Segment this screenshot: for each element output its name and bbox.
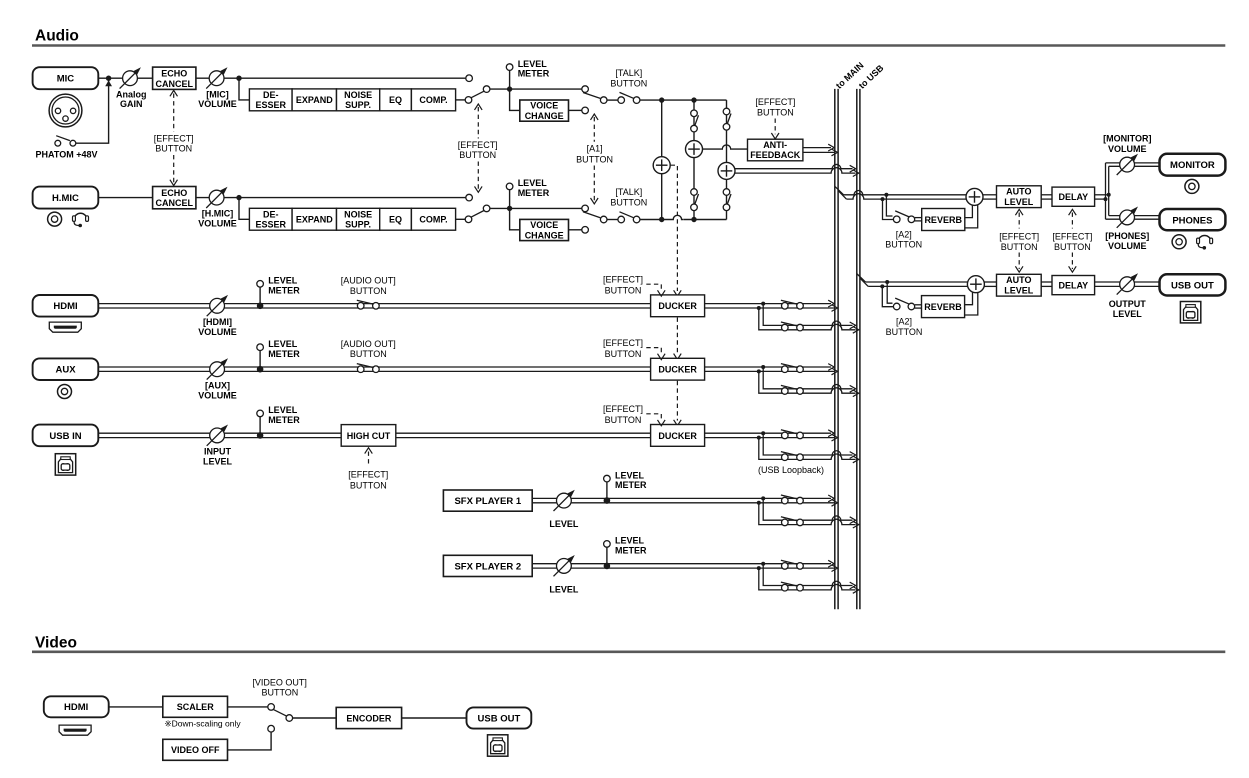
bus to MAIN line R — [837, 89, 839, 609]
arrow sfx2 into USB R — [853, 587, 859, 594]
switch TALK (open) — [618, 92, 640, 103]
contact bypass throw — [466, 75, 473, 82]
svg-text:COMP.: COMP. — [419, 95, 447, 105]
svg-text:PHONES: PHONES — [1172, 215, 1212, 226]
svg-text:DE-: DE- — [263, 90, 279, 100]
svg-text:CANCEL: CANCEL — [156, 198, 194, 208]
svg-text:VIDEO OFF: VIDEO OFF — [171, 745, 220, 755]
switch VIDEO OUT select — [268, 704, 293, 732]
level meter USB IN — [259, 417, 261, 436]
arrow hdmi into USB L — [850, 322, 856, 329]
svg-text:EXPAND: EXPAND — [296, 95, 333, 105]
svg-text:DUCKER: DUCKER — [658, 365, 697, 375]
svg-text:[EFFECT]: [EFFECT] — [603, 274, 643, 284]
level meter AUX — [259, 350, 261, 369]
wire between switches — [607, 99, 618, 101]
wire HDMI to scaler — [109, 706, 163, 708]
switch A1 select (main vs voice change) — [582, 205, 607, 223]
svg-text:BUTTON: BUTTON — [610, 78, 647, 88]
wire usbout reverb drop inner — [887, 282, 892, 303]
wire h.mic mix line hop over ducker dash — [672, 217, 684, 222]
svg-text:LEVEL: LEVEL — [518, 59, 548, 69]
input box MIC — [33, 67, 99, 89]
contact bypass throw — [466, 194, 473, 201]
wire hdmi upper pair to MAIN — [705, 303, 831, 305]
contact voice change throw — [582, 107, 589, 114]
level meter sfx1 — [606, 482, 608, 501]
dashed wire ducker sidechain duct1-duct2 — [676, 318, 678, 355]
level meter HDMI — [259, 287, 261, 306]
node level meter tap — [507, 86, 512, 91]
node split R — [1104, 197, 1108, 201]
box ENCODER — [336, 707, 401, 728]
knob Analog GAIN — [120, 67, 141, 88]
svg-text:DUCKER: DUCKER — [658, 431, 697, 441]
svg-text:VOICE: VOICE — [530, 101, 558, 111]
box VOICE CHANGE — [520, 100, 569, 121]
wire gain knob to echo cancel — [138, 77, 153, 79]
svg-text:METER: METER — [268, 349, 300, 359]
node hdmi branch L — [761, 302, 765, 306]
svg-text:METER: METER — [518, 188, 550, 198]
svg-text:PHATOM +48V: PHATOM +48V — [36, 149, 98, 159]
svg-text:[TALK]: [TALK] — [615, 187, 642, 197]
arrow sfx2 into USB L — [850, 582, 856, 589]
contact voice change throw — [582, 227, 589, 234]
dashed arrow anti-feedback effect — [774, 119, 776, 135]
dashed arrow echo cancel effect (both ends) — [173, 94, 175, 132]
svg-text:LEVEL: LEVEL — [615, 536, 645, 546]
svg-text:HDMI: HDMI — [64, 702, 88, 713]
svg-text:LEVEL: LEVEL — [268, 276, 298, 286]
svg-text:LEVEL: LEVEL — [1004, 197, 1034, 207]
svg-text:H.MIC: H.MIC — [52, 193, 79, 204]
box AUTO LEVEL 2 — [997, 274, 1042, 296]
dashed wire ducker sidechain from sum — [671, 165, 678, 291]
knob SFX 1 LEVEL — [554, 490, 575, 511]
svg-text:BUTTON: BUTTON — [261, 688, 298, 698]
node V2 bottom junction — [691, 217, 696, 222]
wire sum to anti-feedback (hop over V3) — [703, 145, 748, 149]
node usbout reverb tap L — [885, 280, 889, 284]
wire encoder to usb out — [402, 717, 467, 719]
svg-text:BUTTON: BUTTON — [350, 286, 387, 296]
svg-text:AUX: AUX — [55, 365, 76, 376]
wire reverb1 return outer — [965, 205, 978, 228]
knob INPUT LEVEL — [207, 425, 228, 446]
svg-text:BUTTON: BUTTON — [605, 285, 642, 295]
wire monitor/phones split inner — [1108, 166, 1110, 215]
dashed arrow effect into ducker 3 — [646, 414, 661, 421]
svg-text:VOLUME: VOLUME — [198, 99, 237, 109]
svg-text:CHANGE: CHANGE — [525, 230, 564, 240]
node split L — [1107, 193, 1111, 197]
svg-text:LEVEL: LEVEL — [518, 178, 548, 188]
arrow aux into MAIN R — [832, 368, 838, 375]
svg-text:COMP.: COMP. — [419, 215, 447, 225]
USB-B icon below USB OUT — [1180, 302, 1200, 323]
svg-text:CHANGE: CHANGE — [525, 111, 564, 121]
box DUCKER 1 — [651, 295, 705, 317]
wire tap from MAIN bus R (diagonal) — [838, 191, 846, 200]
jack icon below MONITOR — [1185, 179, 1199, 193]
box DELAY 1 — [1052, 187, 1095, 206]
arrow usbin into USB R — [853, 456, 859, 463]
wire voice change tap — [510, 89, 520, 110]
headset icon below PHONES — [1197, 236, 1213, 250]
svg-text:LEVEL: LEVEL — [615, 470, 645, 480]
wire hdmi lower pair to USB (hop over MAIN) — [782, 321, 853, 325]
wire video off to switch — [228, 732, 272, 750]
wire hdmi lower branch drop R — [759, 308, 782, 330]
switch V2 lower — [691, 189, 699, 211]
box DELAY 2 — [1052, 276, 1095, 295]
wire voice change output — [569, 109, 582, 111]
svg-text:BUTTON: BUTTON — [350, 481, 387, 491]
wire delay out pair — [1095, 194, 1109, 196]
wire switch to encoder — [293, 717, 337, 719]
svg-text:SCALER: SCALER — [177, 702, 215, 712]
node sfx1 branch R — [757, 501, 761, 505]
svg-text:SUPP.: SUPP. — [345, 219, 371, 229]
svg-text:ECHO: ECHO — [161, 188, 187, 198]
box COMP. — [411, 89, 455, 111]
svg-text:DE-: DE- — [263, 210, 279, 220]
sum main-mix — [653, 157, 670, 174]
box EXPAND — [292, 89, 336, 111]
wire reverb2 return inner — [965, 292, 973, 305]
svg-text:GAIN: GAIN — [120, 99, 143, 109]
rule under Video — [32, 650, 1225, 653]
switch usbout A2 reverb — [893, 298, 914, 310]
box EQ — [380, 89, 412, 111]
svg-text:LEVEL: LEVEL — [549, 585, 579, 595]
arrow usbin into MAIN R — [832, 434, 838, 441]
svg-text:[EFFECT]: [EFFECT] — [348, 470, 388, 480]
svg-text:METER: METER — [268, 285, 300, 295]
wire aux lower branch drop R — [759, 371, 782, 393]
level meter sfx2 — [606, 547, 608, 566]
arrow sfx1 into MAIN L — [828, 495, 834, 502]
HDMI connector icon (video) — [59, 725, 91, 735]
svg-text:BUTTON: BUTTON — [886, 327, 923, 337]
switch sfx1 to MAIN — [781, 495, 803, 504]
svg-text:INPUT: INPUT — [204, 447, 232, 457]
switch A1 select (main vs voice change) — [582, 86, 607, 104]
arrow sfx2 into MAIN L — [828, 560, 834, 567]
knob [AUX] VOLUME — [207, 358, 228, 379]
svg-text:OUTPUT: OUTPUT — [1109, 299, 1147, 309]
wire anti-feedback out L to MAIN — [803, 147, 831, 149]
arrow hdmi into MAIN R — [832, 305, 838, 312]
svg-text:CANCEL: CANCEL — [156, 79, 194, 89]
level meter circle — [509, 190, 511, 209]
svg-text:ESSER: ESSER — [256, 100, 287, 110]
node level meter tap — [507, 206, 512, 211]
svg-text:EXPAND: EXPAND — [296, 215, 333, 225]
box SFX PLAYER 2 — [443, 555, 532, 576]
node usbout reverb tap R — [880, 284, 884, 288]
node monitor reverb tap L — [884, 193, 888, 197]
svg-text:SFX PLAYER 1: SFX PLAYER 1 — [454, 496, 521, 507]
XLR connector icon — [49, 94, 82, 127]
sum anti-feedback — [686, 141, 703, 158]
bus to MAIN line L — [834, 89, 836, 609]
wire switch to reverb pair — [915, 304, 922, 306]
wire usbout reverb drop outer — [882, 286, 893, 306]
input box HDMI (video) — [44, 696, 109, 717]
box ECHO CANCEL (mic) — [153, 67, 196, 89]
switch sfx1 to USB — [781, 517, 803, 526]
svg-text:FEEDBACK: FEEDBACK — [750, 150, 801, 160]
wire switch common to voice-change switch — [490, 88, 582, 90]
svg-text:METER: METER — [615, 546, 647, 556]
box MONITOR — [1160, 154, 1226, 176]
svg-text:[A2]: [A2] — [896, 229, 912, 239]
node hdmi branch R — [757, 306, 761, 310]
svg-text:[TALK]: [TALK] — [615, 68, 642, 78]
wire AUX pair to ducker — [98, 366, 650, 368]
svg-text:MONITOR: MONITOR — [1170, 160, 1215, 171]
wire drop into effects chain — [239, 198, 249, 220]
wire monitor pair — [1106, 162, 1160, 164]
svg-text:REVERB: REVERB — [924, 302, 962, 312]
input box HDMI — [33, 295, 99, 317]
svg-text:USB IN: USB IN — [49, 431, 81, 442]
wire to mix bus verticals — [640, 219, 727, 221]
knob OUTPUT LEVEL — [1117, 273, 1138, 294]
wire echo cancel to volume knob — [196, 197, 239, 199]
level meter circle — [509, 70, 511, 89]
switch sfx2 to MAIN — [781, 560, 803, 569]
box DUCKER 3 — [651, 425, 705, 447]
svg-text:ENCODER: ENCODER — [346, 713, 392, 723]
svg-text:ECHO: ECHO — [161, 69, 187, 79]
dashed arrow effect (auto level/delay col 1019.2) — [1018, 213, 1020, 229]
box USB OUT (video) — [467, 707, 532, 728]
node aux branch L — [761, 365, 765, 369]
svg-text:[AUDIO OUT]: [AUDIO OUT] — [341, 276, 396, 286]
arrow usbin into MAIN L — [828, 430, 834, 437]
wire phones pair — [1109, 215, 1160, 217]
wire sfx1 lower pair to USB — [782, 516, 853, 520]
svg-text:[MIC]: [MIC] — [206, 89, 229, 99]
wire USB IN pair to ducker — [98, 432, 650, 434]
svg-text:DELAY: DELAY — [1058, 280, 1088, 290]
knob MONITOR VOLUME — [1117, 154, 1138, 175]
box REVERB 2 — [922, 296, 965, 318]
svg-text:BUTTON: BUTTON — [610, 197, 647, 207]
arrow aux into USB R — [853, 390, 859, 397]
wire sfx2 lower drop R — [759, 568, 782, 590]
svg-text:BUTTON: BUTTON — [757, 107, 794, 117]
box VIDEO OFF — [163, 739, 228, 760]
svg-text:BUTTON: BUTTON — [350, 349, 387, 359]
knob MIC VOLUME — [206, 67, 227, 88]
wire echo cancel to volume knob — [196, 77, 239, 79]
arrow sfx2 into MAIN R — [832, 565, 838, 572]
wire switch to reverb pair — [915, 217, 922, 219]
bus to USB line R — [859, 89, 861, 609]
wire anti-feedback vertical — [693, 100, 695, 219]
switch hdmi to USB — [781, 322, 803, 331]
node sfx2 branch L — [761, 562, 765, 566]
svg-text:VOLUME: VOLUME — [1108, 241, 1147, 251]
wire main-mix vertical (MIC+H.MIC sum) — [661, 100, 663, 219]
svg-text:VOLUME: VOLUME — [1108, 144, 1147, 154]
wire voice change output — [569, 229, 582, 231]
wire aux lower branch drop L — [763, 367, 781, 389]
svg-text:LEVEL: LEVEL — [549, 519, 579, 529]
box SCALER — [163, 696, 228, 717]
svg-text:[EFFECT]: [EFFECT] — [458, 140, 498, 150]
svg-text:HIGH CUT: HIGH CUT — [347, 431, 391, 441]
svg-text:HDMI: HDMI — [53, 301, 77, 312]
arrow aux into MAIN L — [828, 364, 834, 371]
svg-text:BUTTON: BUTTON — [576, 154, 613, 164]
node mic line junction — [659, 97, 664, 102]
svg-text:[HDMI]: [HDMI] — [203, 317, 232, 327]
wire usbin lower branch drop L — [763, 433, 781, 455]
box EXPAND — [292, 208, 336, 230]
svg-text:METER: METER — [518, 69, 550, 79]
wire reverb1 return inner — [965, 205, 973, 218]
switch effects bypass (EFFECT BUTTON) — [465, 205, 490, 223]
svg-text:SUPP.: SUPP. — [345, 100, 371, 110]
rule under Audio — [32, 44, 1225, 47]
svg-text:NOISE: NOISE — [344, 210, 372, 220]
node sfx1 branch L — [761, 496, 765, 500]
sum reverb into monitor path — [966, 188, 983, 205]
box ANTI-FEEDBACK — [748, 139, 803, 161]
switch V2 upper — [691, 110, 699, 132]
wire sfx1 lower drop R — [759, 503, 782, 525]
wire voice change tap — [510, 208, 520, 229]
node sfx2 branch R — [757, 566, 761, 570]
jack icon below PHONES — [1172, 235, 1186, 249]
svg-text:VOICE: VOICE — [530, 220, 558, 230]
svg-text:DUCKER: DUCKER — [658, 301, 697, 311]
svg-text:[MONITOR]: [MONITOR] — [1103, 134, 1151, 144]
wire monitor reverb drop inner — [886, 195, 892, 216]
svg-text:MIC: MIC — [57, 74, 75, 85]
wire sum to auto level 1 — [983, 194, 997, 196]
box ECHO CANCEL (hmic) — [153, 187, 196, 209]
wire anti-feedback out R to MAIN — [803, 151, 834, 153]
svg-text:EQ: EQ — [389, 95, 402, 105]
wire SFX 2 pair — [532, 563, 831, 565]
HDMI connector icon (audio) — [49, 322, 81, 332]
dashed wire ducker sidechain duct2-duct3 — [676, 381, 678, 421]
svg-text:[EFFECT]: [EFFECT] — [1052, 232, 1092, 242]
wire MIC to gain knob — [98, 77, 122, 79]
USB-B connector icon (usb in) — [55, 454, 75, 475]
svg-text:※Down-scaling only: ※Down-scaling only — [165, 718, 242, 728]
wire bypass line to switch contact — [239, 77, 466, 79]
switch AUDIO OUT (aux) — [357, 364, 379, 373]
svg-text:[EFFECT]: [EFFECT] — [999, 232, 1039, 242]
arrow sfx1 into USB L — [850, 517, 856, 524]
svg-text:[AUX]: [AUX] — [205, 381, 230, 391]
svg-text:VOLUME: VOLUME — [198, 219, 237, 229]
wire switch common to voice-change switch — [490, 207, 582, 209]
node chain split junction — [236, 76, 241, 81]
dashed arrow chain bypass effect — [477, 107, 479, 139]
svg-text:USB OUT: USB OUT — [478, 713, 521, 724]
wire auto level to delay 2 — [1041, 281, 1052, 283]
wire drop into effects chain — [239, 78, 249, 100]
svg-text:SFX PLAYER 2: SFX PLAYER 2 — [454, 561, 521, 572]
svg-text:(USB Loopback): (USB Loopback) — [758, 465, 824, 475]
svg-text:BUTTON: BUTTON — [885, 240, 922, 250]
wire sfx2 lower pair to USB — [782, 581, 853, 585]
node usbin branch L — [761, 431, 765, 435]
svg-text:Audio: Audio — [35, 28, 79, 45]
svg-text:[EFFECT]: [EFFECT] — [755, 97, 795, 107]
svg-text:Video: Video — [35, 635, 77, 652]
wire usb-mix out R to USB (hop over MAIN) — [735, 168, 856, 173]
input box H.MIC — [33, 187, 99, 209]
svg-text:BUTTON: BUTTON — [1001, 242, 1038, 252]
dashed arrow effect into ducker 2 — [646, 348, 661, 355]
wire monitor/phones split outer — [1105, 163, 1107, 219]
svg-text:[H.MIC]: [H.MIC] — [202, 209, 234, 219]
svg-text:BUTTON: BUTTON — [605, 415, 642, 425]
svg-text:[EFFECT]: [EFFECT] — [603, 404, 643, 414]
switch V3 upper — [723, 108, 731, 130]
knob [HDMI] VOLUME — [207, 295, 228, 316]
svg-text:REVERB: REVERB — [924, 215, 962, 225]
switch TALK (open) — [618, 212, 640, 223]
svg-text:[PHONES]: [PHONES] — [1105, 231, 1149, 241]
wire phantom feed vertical with up arrow — [76, 80, 109, 144]
box DE-ESSER — [249, 208, 292, 230]
switch effects bypass (EFFECT BUTTON) — [465, 86, 490, 103]
knob H.MIC VOLUME — [206, 187, 227, 208]
USB-B icon (video usb out) — [488, 735, 508, 756]
input box USB IN — [33, 425, 99, 447]
dashed arrow effect (auto level/delay col 1072.4) — [1071, 213, 1073, 229]
svg-text:BUTTON: BUTTON — [1054, 242, 1091, 252]
knob PHONES VOLUME — [1117, 207, 1138, 228]
switch usbin to MAIN — [781, 430, 803, 439]
svg-text:EQ: EQ — [389, 215, 402, 225]
wire delay2 to usb out — [1095, 281, 1160, 283]
box COMP. — [411, 208, 455, 230]
switch aux to USB — [781, 385, 803, 394]
dashed arrow A1 button (both ends) — [593, 117, 595, 142]
box USB OUT (audio) — [1160, 274, 1226, 295]
wire monitor feed pair (hop over USB bus) — [844, 190, 967, 194]
dashed arrow effect into high cut — [368, 452, 370, 467]
svg-text:[AUDIO OUT]: [AUDIO OUT] — [341, 339, 396, 349]
node h.mic line junction — [659, 217, 664, 222]
dashed arrow effect into ducker 1 — [646, 284, 661, 291]
box HIGH CUT — [341, 425, 396, 447]
box VOICE CHANGE — [520, 219, 569, 240]
box AUTO LEVEL 1 — [997, 186, 1042, 208]
wire chain output — [456, 218, 466, 220]
svg-text:LEVEL: LEVEL — [268, 405, 298, 415]
box REVERB 1 — [922, 209, 965, 231]
svg-text:METER: METER — [615, 480, 647, 490]
arrow hdmi into USB R — [853, 326, 859, 333]
svg-text:USB OUT: USB OUT — [1171, 281, 1214, 292]
wire usb-mix out L to USB (hop over MAIN) — [735, 164, 853, 168]
wire sum to auto level 2 — [984, 281, 996, 283]
box SFX PLAYER 1 — [443, 490, 532, 511]
box NOISE SUPP. — [337, 208, 380, 230]
